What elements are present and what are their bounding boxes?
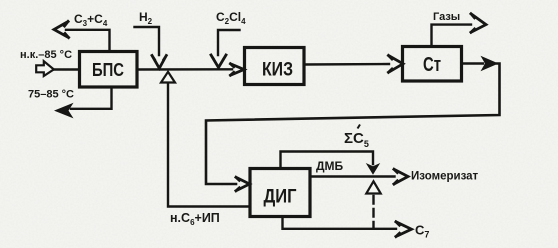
filled arrowhead sigma C5 down [366, 163, 380, 175]
block KIZ [245, 48, 305, 85]
arrowhead Izomerizat right [394, 169, 408, 184]
open arrowheads (chevrons) [54, 14, 486, 237]
wire feed into BPS [54, 68, 80, 70]
wire sigma C5 loop from DIG top [281, 152, 374, 169]
arrowhead into KIZ [231, 64, 245, 75]
wire St out to right and down recycle [462, 62, 484, 64]
block arrow feed n.k.-85 [36, 61, 54, 76]
arrowhead into DIG [236, 177, 250, 191]
wire dashed from C7 line up to junction [372, 196, 374, 229]
junction node: open up arrow on main line [161, 72, 175, 83]
wire C7 from DIG bottom [283, 217, 397, 229]
svg-text:ДИГ: ДИГ [264, 187, 297, 208]
svg-text:н.С6+ИП: н.С6+ИП [170, 211, 220, 227]
block BPS [80, 52, 138, 88]
block St [403, 47, 462, 82]
svg-text:Изомеризат: Изомеризат [411, 171, 479, 183]
svg-text:ДМБ: ДМБ [316, 159, 344, 173]
filled arrowhead 75-85 left [54, 103, 74, 119]
wire Gazy from St top [432, 25, 472, 47]
arrowhead Gazy right [471, 14, 486, 33]
arrowhead H2 down [152, 56, 166, 69]
svg-text:С3+С4: С3+С4 [74, 12, 108, 28]
svg-text:КИЗ: КИЗ [262, 60, 293, 81]
accent tick above sigma C5 [358, 125, 361, 129]
arrowhead C7 right [396, 222, 412, 237]
arrowhead into St [389, 56, 404, 73]
wire DMB to Izomerizat [310, 175, 395, 177]
filled arrowhead St out right [481, 56, 499, 72]
junction node: open up arrow under izomerizat line [366, 181, 380, 193]
wire C3+C4 from BPS top [66, 30, 110, 52]
arrowhead C2Cl4 down [211, 55, 226, 68]
wire C2Cl4 feed [218, 30, 240, 55]
svg-text:н.к.–85 °С: н.к.–85 °С [20, 49, 72, 61]
wire H2 feed [135, 27, 160, 55]
wire KIZ to St [304, 63, 389, 66]
wire recycle riser nC5 [168, 83, 250, 207]
wire BPS to KIZ main line [137, 68, 232, 71]
svg-text:75–85 °С: 75–85 °С [28, 89, 74, 101]
svg-text:Газы: Газы [433, 11, 460, 23]
arrowhead C3+C4 left [54, 22, 69, 38]
svg-text:Ст: Ст [423, 54, 441, 76]
block DIG [250, 169, 310, 217]
svg-text:БПС: БПС [92, 60, 124, 80]
wire 75-85 from BPS bottom [71, 87, 112, 109]
